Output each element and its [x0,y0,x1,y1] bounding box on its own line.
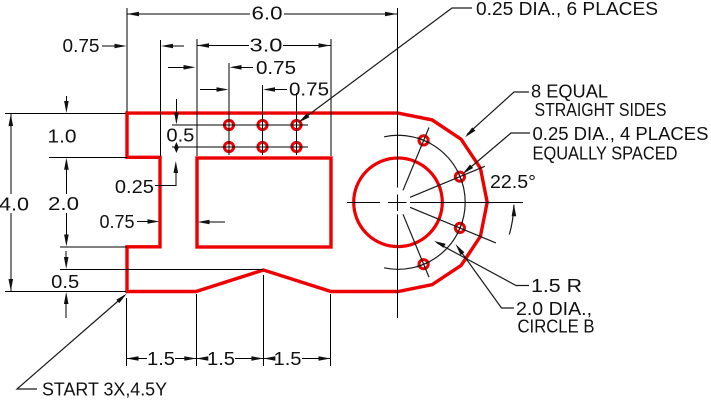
tick hole -67.5 [417,262,430,267]
bolt circle arc B [384,135,465,269]
grid hole 3 [292,120,301,129]
svg-text:STRAIGHT SIDES: STRAIGHT SIDES [535,99,667,120]
extension line x160 [160,40,162,156]
svg-text:1.5 R: 1.5 R [531,275,582,296]
dimension 0.5 hole rows [175,99,177,113]
leader 6 places [301,8,472,121]
diamond arrow pair row2 [174,142,179,153]
extension line y157.3 [49,156,127,158]
horizontal centerline [347,202,523,204]
svg-text:4.0: 4.0 [0,194,29,215]
grid row centerline 1 [172,124,308,126]
leader 4 places [465,133,530,172]
svg-text:1.5: 1.5 [274,348,302,369]
svg-text:0.75: 0.75 [100,211,135,232]
bottom extension line x196.3 [195,294,197,366]
leader 1.5 R [437,243,529,286]
extension line y113.5 [5,113,126,115]
dimension 6.0 [127,13,397,15]
radial line -67.5 [403,214,429,277]
svg-text:CIRCLE B: CIRCLE B [518,316,595,337]
bolt hole 22.5deg [455,172,464,181]
grid hole 5 [258,142,267,151]
grid column centerline 1 [228,63,230,155]
leader 2.0 dia circle B [458,248,514,309]
svg-text:0.5: 0.5 [166,125,194,146]
grid row centerline 2 [172,146,308,148]
svg-text:1.0: 1.0 [48,126,77,147]
dimension 3.0 [197,45,331,47]
bottom extension line x330.5 [330,294,332,366]
svg-text:1.5: 1.5 [207,348,235,369]
svg-text:0.25 DIA., 4 PLACES: 0.25 DIA., 4 PLACES [533,123,709,144]
svg-text:0.75: 0.75 [63,35,100,56]
svg-text:2.0: 2.0 [48,193,79,214]
svg-text:3.0: 3.0 [250,35,283,56]
extension line y291.5 [5,291,126,293]
svg-text:0.75: 0.75 [256,57,296,78]
extension line y247 [60,246,127,248]
dimension 0.5 left [65,251,67,258]
dimension 0.25 leader [174,161,179,173]
tick hole 22.5 [457,170,462,183]
bolt hole 67.5deg [419,136,428,145]
dimension 0.75 rect to hole col1 [168,66,185,68]
svg-text:6.0: 6.0 [252,3,283,24]
grid hole 4 [224,142,233,151]
grid column centerline 3 [296,93,298,155]
svg-text:0.5: 0.5 [51,271,79,292]
start leader [17,296,125,390]
svg-text:0.25 DIA., 6 PLACES: 0.25 DIA., 6 PLACES [476,0,658,19]
bolt hole -22.5deg [455,223,464,232]
extension line x197 [196,39,198,156]
svg-text:0.25: 0.25 [115,176,154,197]
extension line x331 [330,39,332,156]
grid hole 1 [224,120,233,129]
vertical centerline [397,8,399,318]
svg-text:EQUALLY SPACED: EQUALLY SPACED [533,143,678,164]
tick hole 67.5 [417,138,430,143]
opposing arrow at rect edge [198,220,210,225]
grid column centerline 2 [262,85,264,155]
dimension 1.5 chain [127,356,139,361]
svg-text:22.5°: 22.5° [490,171,536,192]
extension line y269.5 [60,269,263,271]
dimension 1.0 [65,96,67,102]
bottom extension line x263.4 [262,275,264,366]
svg-text:0.75: 0.75 [289,79,329,100]
part outline [127,113,487,291]
radial line 67.5 [403,128,429,191]
large hole circle [354,158,443,247]
bottom extension line x126.5 [126,298,128,366]
tick hole -22.5 [457,222,462,235]
extension line x127 top [126,8,128,112]
grid hole 2 [258,120,267,129]
dimension 4.0 [10,114,12,292]
bolt hole -67.5deg [419,260,428,269]
radial line 22.5 [410,166,485,197]
grid hole 6 [292,142,301,151]
svg-text:START 3X,4.5Y: START 3X,4.5Y [42,379,167,400]
leader 8 equal [467,92,529,135]
dimension 0.75 hole col1 to col2 [200,89,217,91]
svg-text:1.5: 1.5 [147,348,175,369]
radial line -22.5 [410,207,496,243]
rectangular cutout [197,158,331,247]
